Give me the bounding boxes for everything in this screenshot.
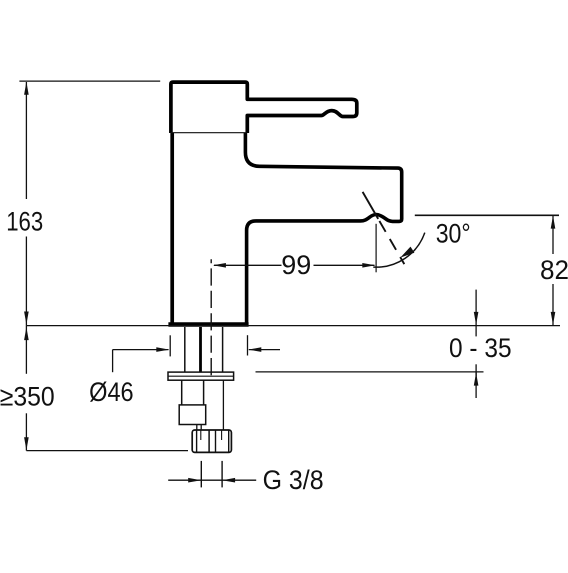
svg-text:0 - 35: 0 - 35 (449, 333, 512, 363)
svg-text:99: 99 (281, 250, 311, 280)
svg-text:Ø46: Ø46 (89, 377, 134, 407)
svg-text:82: 82 (540, 255, 568, 285)
svg-text:≥350: ≥350 (0, 382, 55, 412)
svg-text:G 3/8: G 3/8 (263, 465, 324, 495)
svg-text:30°: 30° (436, 218, 471, 248)
svg-text:163: 163 (6, 206, 43, 236)
